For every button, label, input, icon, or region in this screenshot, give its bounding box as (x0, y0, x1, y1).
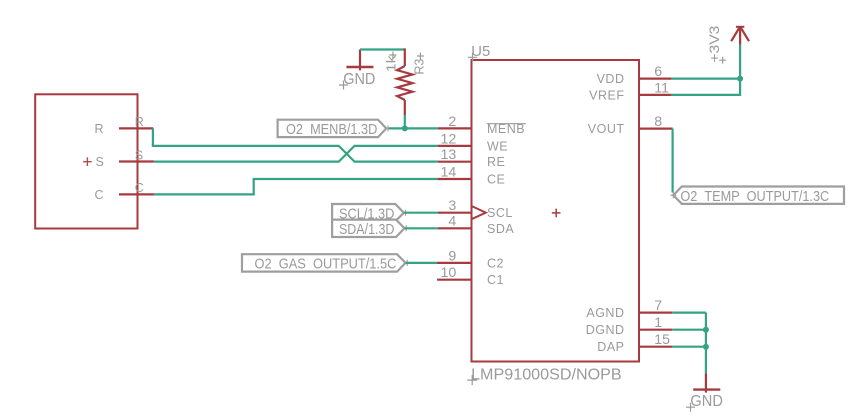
svg-text:C: C (135, 181, 144, 195)
net label flag O2_TEMP_OUTPUT/1.3C (points left) (670, 187, 844, 206)
sensor pin S stub (119, 160, 154, 162)
pin 1 DGND stub (639, 329, 672, 331)
net label flag O2_MENB/1.3D (278, 120, 391, 138)
pin 15 number (654, 332, 670, 348)
ground symbol GND (bottom right) (686, 373, 723, 412)
svg-text:WE: WE (487, 139, 508, 153)
pin 8 VOUT stub (639, 128, 673, 130)
svg-text:10: 10 (441, 265, 457, 281)
pin 6 number (654, 64, 662, 80)
wire SCL label to pin 3 (404, 212, 438, 214)
sensor pin C pad label (135, 181, 144, 195)
wire CE run to pin 14 (253, 178, 438, 180)
sensor part origin cross (83, 157, 92, 166)
pin 11 VREF stub (639, 94, 671, 96)
pin 10 number (441, 265, 457, 281)
pin 1 number (654, 315, 662, 331)
pin 4 SDA stub (438, 227, 472, 229)
pin 10 C1 stub (437, 279, 471, 281)
svg-text:DGND: DGND (586, 323, 625, 337)
ground symbol GND (top, near R3) (339, 50, 375, 90)
sensor pin C name inside (95, 188, 104, 202)
pin name CE (487, 173, 505, 187)
wire crossover diagonal S up to WE (339, 146, 355, 162)
pin name C1 (487, 273, 504, 287)
pin name VDD (597, 72, 625, 86)
sensor connector J (electrochemical cell) body (35, 94, 137, 228)
svg-text:O2_MENB/1.3D: O2_MENB/1.3D (286, 121, 377, 138)
svg-text:C2: C2 (487, 256, 504, 270)
junction dot +3V3 net (737, 76, 743, 82)
svg-text:+3V3: +3V3 (706, 25, 722, 62)
svg-text:GND: GND (343, 71, 375, 88)
wire RE run to pin 13 (354, 161, 438, 163)
pin 3 SCL stub (438, 212, 472, 214)
svg-text:1: 1 (654, 315, 662, 331)
sensor pin C stub (119, 193, 154, 195)
wire C vertical rise (253, 179, 255, 196)
sensor pin S name inside (96, 155, 104, 169)
wire DAP to ground bus (672, 346, 706, 348)
pin 7 AGND stub (639, 312, 672, 314)
pin 12 number (441, 131, 457, 147)
wire R horizontal run to crossover (152, 145, 340, 147)
svg-text:O2_GAS_OUTPUT/1.5C: O2_GAS_OUTPUT/1.5C (255, 256, 397, 273)
pin 7 number (654, 298, 662, 314)
wire SDA label to pin 4 (405, 227, 438, 229)
pin name WE (487, 139, 508, 153)
resistor name label R3 (rotated) (412, 53, 426, 75)
pin name VOUT (588, 122, 625, 136)
pin name AGND (586, 306, 624, 320)
IC origin cross (552, 209, 561, 218)
svg-text:9: 9 (448, 248, 456, 264)
wire VOUT vertical to label (671, 129, 673, 193)
net label flag O2_GAS_OUTPUT/1.5C (242, 254, 410, 272)
junction dot DAP (703, 344, 709, 350)
power label +3V3 (rotated) (706, 25, 726, 63)
sensor pin R name inside (95, 122, 104, 136)
svg-text:13: 13 (441, 147, 457, 163)
svg-text:4: 4 (448, 214, 456, 230)
pin name DAP (597, 340, 624, 354)
svg-text:DAP: DAP (597, 340, 624, 354)
pin name VREF (589, 88, 624, 102)
wire resistor bottom to junction (404, 115, 406, 128)
IC U5 body (472, 60, 640, 362)
pin name DGND (586, 323, 625, 337)
wire up to +3V3 symbol (739, 45, 741, 79)
wire VREF vertical to junction (739, 79, 741, 96)
resistor R3 bottom lead (404, 100, 406, 115)
sensor pin S pad label (135, 148, 143, 162)
svg-text:LMP91000SD/NOPB: LMP91000SD/NOPB (471, 367, 622, 384)
svg-text:O2_TEMP_OUTPUT/1.3C: O2_TEMP_OUTPUT/1.3C (680, 188, 829, 205)
wire VDD to +3V3 junction (671, 77, 740, 79)
wire VREF horizontal (671, 94, 740, 96)
pin 15 DAP stub (639, 346, 672, 348)
ground bus vertical wire (705, 313, 707, 374)
junction dot DGND (703, 327, 709, 333)
pin name SDA (487, 222, 514, 236)
net label flag SDA/1.3D (332, 220, 409, 238)
junction dot on MENB net (402, 125, 408, 131)
svg-text:8: 8 (654, 114, 662, 130)
svg-text:C1: C1 (487, 273, 504, 287)
sensor pin R stub (119, 127, 153, 129)
pin name MENB with overbar (487, 122, 526, 136)
svg-text:15: 15 (654, 332, 670, 348)
resistor R3 top lead (404, 48, 406, 66)
pin 3 number (448, 198, 456, 214)
resistor value label 1k (rotated) (384, 52, 398, 73)
svg-text:C: C (95, 188, 104, 202)
IC value label LMP91000SD/NOPB (467, 367, 622, 386)
pin 9 number (448, 248, 456, 264)
pin 14 CE stub (438, 178, 472, 180)
svg-text:RE: RE (487, 155, 505, 169)
pin 13 RE stub (438, 161, 472, 163)
pin 12 WE stub (438, 145, 472, 147)
SCL clock chevron (472, 206, 486, 219)
svg-text:11: 11 (654, 80, 669, 96)
pin 6 VDD stub (639, 77, 671, 79)
sensor pin R pad label (135, 115, 144, 129)
svg-text:GND: GND (690, 393, 723, 410)
resistor R3 zigzag body (397, 66, 412, 100)
power symbol +3V3 arrow (731, 27, 749, 45)
svg-text:2: 2 (448, 114, 456, 130)
pin 11 number (654, 80, 669, 96)
svg-text:R3: R3 (412, 59, 426, 75)
wire C horizontal run (154, 193, 254, 195)
wire GND to resistor top (360, 48, 405, 50)
svg-text:S: S (96, 155, 104, 169)
svg-text:SDA: SDA (487, 222, 514, 236)
svg-text:12: 12 (441, 131, 457, 147)
svg-text:VREF: VREF (589, 88, 624, 102)
wire AGND to ground bus (672, 312, 706, 314)
pin 4 number (448, 214, 456, 230)
wire WE run to pin 12 (354, 145, 438, 147)
svg-text:6: 6 (654, 64, 662, 80)
svg-text:14: 14 (441, 164, 457, 180)
svg-text:AGND: AGND (586, 306, 624, 320)
pin name RE (487, 155, 505, 169)
wire crossover diagonal R down to RE (339, 146, 355, 162)
svg-text:SDA/1.3D: SDA/1.3D (339, 221, 395, 238)
svg-text:3: 3 (448, 198, 456, 214)
pin 2 number (448, 114, 456, 130)
svg-text:1k: 1k (384, 54, 398, 72)
svg-text:7: 7 (654, 298, 662, 314)
svg-text:VDD: VDD (597, 72, 625, 86)
wire MENB label to pin 2 (389, 127, 438, 129)
net label flag SCL/1.3D (332, 204, 408, 222)
wire R vertical drop (152, 128, 154, 146)
svg-text:S: S (135, 148, 143, 162)
pin name SCL (487, 206, 513, 220)
svg-text:CE: CE (487, 173, 505, 187)
pin 9 C2 stub (437, 262, 471, 264)
wire GAS label to pin 9 (406, 262, 438, 264)
svg-text:R: R (135, 115, 144, 129)
wire S horizontal run to crossover (154, 161, 340, 163)
pin 14 number (441, 164, 457, 180)
pin 13 number (441, 147, 457, 163)
IC U5 name label (468, 44, 490, 62)
wire DGND to ground bus (672, 329, 706, 331)
svg-text:R: R (95, 122, 104, 136)
pin name C2 (487, 256, 504, 270)
svg-text:SCL: SCL (487, 206, 513, 220)
svg-text:VOUT: VOUT (588, 122, 625, 136)
pin 8 number (654, 114, 662, 130)
pin 2 MENB stub (438, 127, 472, 129)
